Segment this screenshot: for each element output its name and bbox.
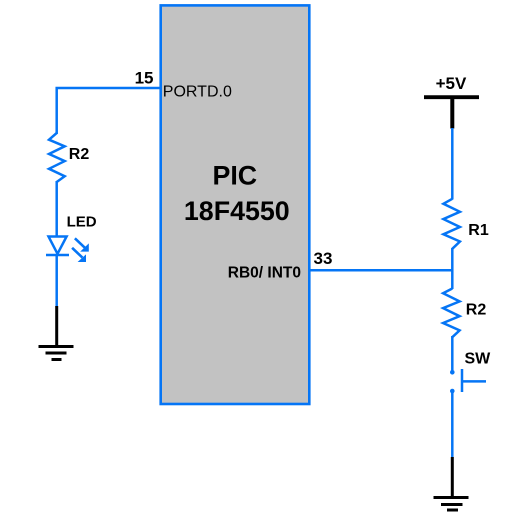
resistor R1	[443, 199, 460, 249]
ground (left)	[39, 306, 74, 360]
svg-text:+5V: +5V	[436, 74, 467, 93]
svg-text:LED: LED	[67, 214, 97, 231]
svg-text:15: 15	[135, 68, 154, 87]
LED D1 cathode bar	[46, 254, 69, 257]
wire R1 to node and on to R2 (right)	[451, 248, 454, 289]
power +5V symbol	[424, 97, 479, 128]
wire pin 33 RB0 to node	[309, 269, 452, 272]
IC U1 PIC 18F4550 body	[161, 5, 310, 404]
LED D1 light arrow 1	[75, 238, 89, 251]
svg-text:18F4550: 18F4550	[184, 196, 290, 226]
resistor R2 (left)	[49, 133, 65, 182]
wire switch to ground (right)	[451, 393, 454, 459]
svg-text:SW: SW	[465, 351, 492, 368]
svg-text:33: 33	[314, 249, 333, 268]
svg-text:PORTD.0: PORTD.0	[163, 84, 232, 101]
svg-text:R2: R2	[69, 146, 90, 163]
svg-text:R2: R2	[466, 302, 487, 319]
svg-text:R1: R1	[468, 222, 489, 239]
ground (right)	[434, 457, 469, 510]
wire LED to ground (left)	[55, 254, 58, 307]
wire R2 to LED	[55, 181, 58, 237]
resistor R2 (right)	[443, 289, 460, 338]
wire pin15 to resistor R2 (left)	[57, 88, 161, 134]
svg-text:PIC: PIC	[212, 161, 257, 191]
switch SW contacts and actuator	[450, 369, 486, 393]
LED D1 triangle	[49, 237, 67, 254]
wire +5V to resistor R1	[451, 128, 454, 200]
LED D1 light arrow 2	[72, 248, 86, 262]
svg-text:RB0/ INT0: RB0/ INT0	[228, 264, 301, 281]
wire R2 to switch SW	[451, 336, 454, 371]
